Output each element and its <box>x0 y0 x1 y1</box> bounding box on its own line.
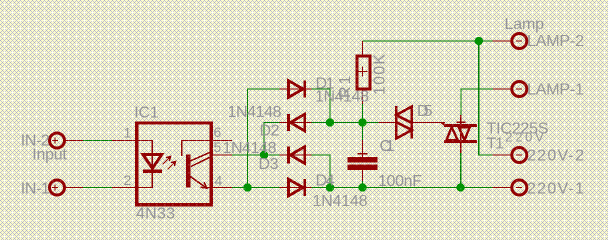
connector IN-1 <box>50 180 84 195</box>
LED light arrows <box>163 157 171 165</box>
junction dot D1 gate row <box>326 118 334 126</box>
diode D2 <box>280 114 312 131</box>
pin 1 stub <box>112 140 137 142</box>
wire R1 bottom <box>362 104 364 123</box>
wire D2 cathode bend <box>264 123 280 156</box>
wire D3 anode down <box>312 155 331 188</box>
diac D5 <box>379 106 445 139</box>
connector IN-2 <box>50 133 84 148</box>
wire gate row D2 to diac <box>312 122 379 124</box>
wire 220V-2 drop <box>479 41 493 155</box>
connector 220V-2 <box>493 148 527 163</box>
pin 6 stub <box>211 140 233 142</box>
phototransistor inside IC1 <box>186 154 191 187</box>
wire top row <box>363 40 493 42</box>
wire C1 top <box>362 123 364 141</box>
diode D3 <box>280 147 312 164</box>
pin 5 stub <box>211 154 233 156</box>
capacitor C1 <box>348 140 378 181</box>
junction dot D2 bend pin5 row <box>260 151 268 159</box>
junction dot triac MT1 bottom row <box>456 183 464 191</box>
pin 2 stub <box>112 187 137 189</box>
triac T1 <box>442 115 477 153</box>
diode D1 <box>280 81 312 98</box>
junction dot top row 220V-2 <box>475 37 483 45</box>
junction dot R1 C1 gate row <box>358 118 366 126</box>
wire IN-2 to IC pin 1 <box>83 140 112 142</box>
diode D4 <box>280 179 312 196</box>
wire D1 cathode down <box>312 89 331 123</box>
wire C1 bottom <box>362 181 364 188</box>
wire triac MT1 down <box>460 153 462 188</box>
resistor R1 <box>357 41 370 104</box>
wire pin5 to D3 <box>232 154 280 156</box>
wire pin4 row <box>232 187 280 189</box>
wire bottom row <box>312 187 493 189</box>
connector LAMP-2 <box>493 34 527 49</box>
wire LAMP-1 to triac MT2 <box>461 89 493 115</box>
wire IN-1 to IC pin 2 <box>83 187 112 189</box>
wire net A vertical (D1 anode / pin4) <box>248 89 280 188</box>
connector 220V-1 <box>493 180 527 195</box>
optocoupler IC1 <box>112 123 232 205</box>
junction dot C1 bottom row <box>358 183 366 191</box>
pin 4 stub <box>211 187 233 189</box>
junction dot net A pin4 <box>243 183 251 191</box>
connector LAMP-1 <box>493 82 527 97</box>
LED inside IC1 <box>137 141 152 172</box>
junction dot D3 bottom row <box>326 183 334 191</box>
